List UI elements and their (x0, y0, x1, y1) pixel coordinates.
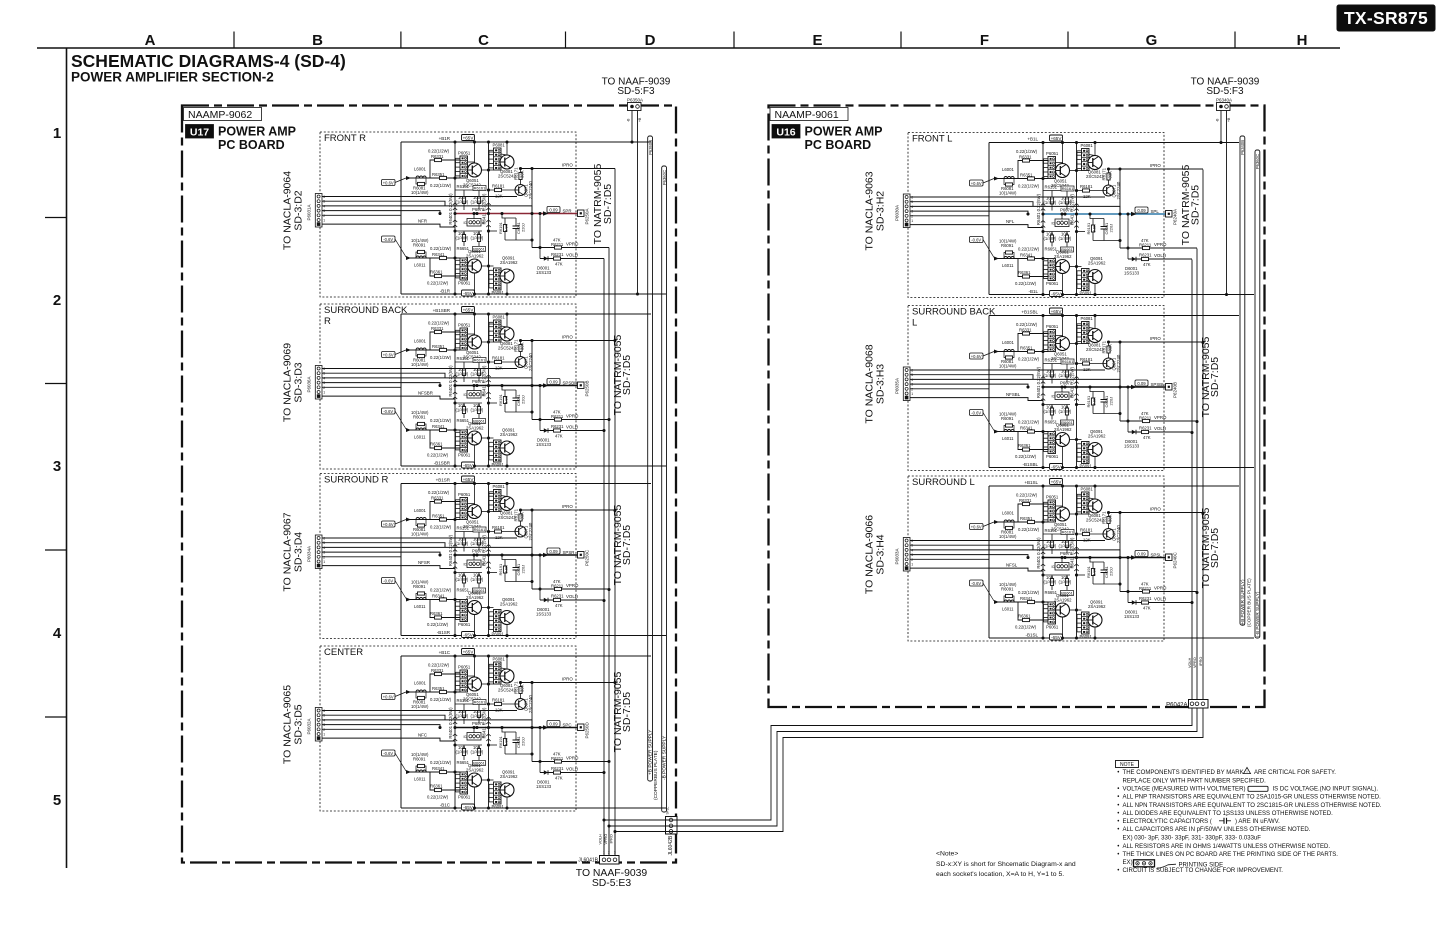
svg-text:POWER AMP: POWER AMP (218, 125, 296, 139)
svg-text:EX) 030- 3pF, 330- 33pF, 331-: EX) 030- 3pF, 330- 33pF, 331- 330pF, 333… (1123, 835, 1262, 841)
svg-text:•: • (1117, 795, 1119, 801)
svg-text:POWER AMPLIFIER SECTION-2: POWER AMPLIFIER SECTION-2 (71, 70, 274, 85)
-B copper bus P6360C right (1255, 150, 1260, 638)
svg-text:NFC: NFC (418, 733, 427, 738)
svg-text:ALL RESISTORS ARE IN OHMS 1/4W: ALL RESISTORS ARE IN OHMS 1/4WATTS UNLES… (1123, 844, 1331, 850)
svg-text:CIRCUIT IS SUBJECT TO CHANGE F: CIRCUIT IS SUBJECT TO CHANGE FOR IMPROVE… (1123, 868, 1284, 874)
svg-text:(+B POWER SUPPLY): (+B POWER SUPPLY) (1240, 579, 1245, 626)
svg-text:-B1SL: -B1SL (1025, 633, 1038, 638)
svg-text:NFL: NFL (1006, 219, 1015, 224)
connector JL6042B (666, 817, 678, 835)
svg-text:•: • (1117, 819, 1119, 825)
svg-text:-B1SBL: -B1SBL (1022, 462, 1038, 467)
right VPRO bus (1196, 249, 1198, 700)
model box TX-SR875 (1337, 5, 1435, 31)
left VOLH bus (603, 259, 605, 857)
svg-text:+B1C: +B1C (439, 650, 451, 655)
svg-text:P6036A: P6036A (307, 376, 312, 392)
svg-text:TO NACLA-9067: TO NACLA-9067 (281, 512, 293, 591)
svg-text:-B1C: -B1C (440, 803, 451, 808)
svg-text:+B1SR: +B1SR (436, 478, 451, 483)
column ticks (233, 32, 235, 49)
row ticks (45, 217, 67, 219)
amplifier channel FRONT L (903, 133, 1254, 298)
svg-text:U17: U17 (190, 126, 209, 138)
svg-text:IPRO: IPRO (609, 834, 613, 843)
svg-text:POWER AMP: POWER AMP (805, 125, 883, 139)
amplifier channel SURROUND R (315, 474, 666, 639)
svg-text:REPLACE ONLY WITH PART NUMBER: REPLACE ONLY WITH PART NUMBER SPECIFIED. (1123, 779, 1267, 785)
wire IPRO left bus (614, 832, 616, 857)
svg-text:SPR: SPR (563, 208, 572, 213)
svg-text:+B1SBL: +B1SBL (1021, 310, 1038, 315)
svg-text:•: • (1117, 803, 1119, 809)
svg-text:•: • (1117, 852, 1119, 858)
svg-text:IS DC VOLTAGE.(NO INPUT SIGNAL: IS DC VOLTAGE.(NO INPUT SIGNAL). (1273, 787, 1379, 793)
svg-text:SPSL: SPSL (1151, 552, 1163, 557)
svg-text:-B1R: -B1R (440, 289, 451, 294)
svg-text:TO NACLA-9064: TO NACLA-9064 (281, 171, 293, 250)
svg-text:+B: +B (638, 117, 642, 122)
svg-text:FRONT R: FRONT R (324, 133, 366, 144)
right VOLH bus (1191, 260, 1193, 700)
svg-text:SD-3:D5: SD-3:D5 (293, 704, 305, 744)
svg-text:SURROUND L: SURROUND L (912, 477, 975, 488)
svg-text:) ARE IN uF/WV.: ) ARE IN uF/WV. (1235, 819, 1280, 825)
svg-text:•: • (1117, 770, 1119, 776)
amplifier channel SURROUND BACK L (903, 306, 1254, 471)
left IPRO bus (614, 169, 616, 857)
svg-text:1: 1 (603, 851, 605, 855)
svg-text:THE COMPONENTS IDENTIFIED BY M: THE COMPONENTS IDENTIFIED BY MARK (1123, 770, 1244, 776)
wire P6350A to -B rail (637, 111, 639, 295)
svg-text:P6035A: P6035A (895, 378, 900, 394)
svg-text:ARE CRITICAL FOR SAFETY.: ARE CRITICAL FOR SAFETY. (1254, 770, 1336, 776)
svg-text:P6042A: P6042A (1166, 703, 1187, 709)
svg-text:P6240C: P6240C (1173, 551, 1178, 568)
svg-text:F: F (980, 32, 989, 49)
svg-text:+B: +B (1227, 117, 1231, 122)
svg-text:SD-7:D5: SD-7:D5 (621, 525, 633, 565)
svg-text:SD-7:D5: SD-7:D5 (1190, 185, 1202, 225)
svg-text:P6340A: P6340A (1216, 98, 1232, 103)
svg-text:-B1SR: -B1SR (437, 630, 451, 635)
-B copper bus P6360C (662, 166, 667, 812)
svg-text:C: C (478, 32, 489, 49)
wire VPRO right to left (609, 708, 1197, 826)
svg-text:TO NACLA-9069: TO NACLA-9069 (281, 343, 293, 422)
svg-text:THE THICK LINES ON PC BOARD AR: THE THICK LINES ON PC BOARD ARE THE PRIN… (1123, 852, 1339, 858)
svg-text:SD-7:D5: SD-7:D5 (602, 184, 614, 224)
svg-text:NOTE: NOTE (1120, 762, 1135, 768)
svg-text:P6250A: P6250A (585, 208, 590, 224)
svg-text:3: 3 (53, 458, 61, 475)
svg-text:SD-7:D5: SD-7:D5 (1209, 357, 1221, 397)
svg-text:SP2L: SP2L (665, 806, 669, 814)
svg-text:VOLH: VOLH (598, 834, 602, 845)
svg-text:VOLH: VOLH (1188, 657, 1192, 668)
svg-text:SD-x:XY is short for Shcematic: SD-x:XY is short for Shcematic Diagram-x… (936, 861, 1076, 868)
svg-text:(COPPER BUS PLATE): (COPPER BUS PLATE) (1247, 578, 1252, 627)
svg-text:P6031A: P6031A (307, 204, 312, 220)
wire P6350A to +B rail (631, 111, 633, 143)
left rule (66, 48, 68, 868)
svg-text:D: D (645, 32, 656, 49)
svg-text:-B1SBR: -B1SBR (434, 461, 451, 466)
wire IPRO right to left (615, 708, 1203, 832)
svg-text:P6350A: P6350A (627, 98, 643, 103)
svg-text:SPSR: SPSR (563, 550, 575, 555)
svg-text:!: ! (1246, 770, 1247, 774)
svg-text:SCHEMATIC DIAGRAMS-4 (SD-4): SCHEMATIC DIAGRAMS-4 (SD-4) (71, 51, 346, 71)
svg-text:NAAMP-9062: NAAMP-9062 (188, 109, 252, 121)
svg-text:•: • (1117, 787, 1119, 793)
svg-text:+B1L: +B1L (1027, 137, 1038, 142)
svg-text:+B1SL: +B1SL (1024, 480, 1038, 485)
svg-text:A: A (145, 32, 156, 49)
left VPRO bus (608, 248, 610, 857)
svg-text:•: • (1117, 868, 1119, 874)
svg-text:SPC: SPC (563, 722, 572, 727)
svg-text:ELECTROLYTIC CAPACITORS (: ELECTROLYTIC CAPACITORS ( (1123, 819, 1212, 825)
svg-text:B: B (312, 32, 323, 49)
svg-text:SD-7:D5: SD-7:D5 (621, 692, 633, 732)
svg-text:(-B POWER SUPPLY): (-B POWER SUPPLY) (1255, 591, 1260, 637)
amplifier channel SURROUND L (903, 476, 1254, 641)
svg-text:NFSL: NFSL (1006, 563, 1018, 568)
svg-text:SURROUND BACK: SURROUND BACK (324, 305, 408, 316)
right IPRO bus (1202, 170, 1204, 700)
svg-text:2: 2 (608, 851, 610, 855)
svg-text:SD-3:H2: SD-3:H2 (875, 191, 887, 231)
svg-text:+B1SBR: +B1SBR (433, 308, 451, 313)
svg-text:SD-3:D3: SD-3:D3 (293, 362, 305, 402)
svg-text:NFSR: NFSR (418, 560, 430, 565)
NAAMP-9061 board outline (769, 106, 1265, 708)
+B copper bus P6350B (648, 136, 653, 781)
svg-text:PC BOARD: PC BOARD (218, 138, 285, 152)
svg-text:G: G (1146, 32, 1158, 49)
ruler top line (37, 47, 1340, 49)
NAAMP-9061 label (770, 108, 848, 121)
svg-text:SPL: SPL (1151, 209, 1160, 214)
NOTE box (1116, 761, 1139, 769)
svg-text:<Note>: <Note> (936, 851, 958, 858)
svg-text:P6240A: P6240A (1173, 209, 1178, 225)
svg-text:TO NACLA-9066: TO NACLA-9066 (864, 515, 876, 594)
svg-text:SD-7:D5: SD-7:D5 (621, 355, 633, 395)
svg-text:+B1R: +B1R (439, 136, 451, 141)
wire VPRO left bus (608, 826, 610, 856)
svg-text:P6250B: P6250B (585, 380, 590, 396)
svg-text:•: • (1117, 827, 1119, 833)
svg-text:JL6041B: JL6041B (578, 858, 598, 864)
svg-text:P6240B: P6240B (1173, 382, 1178, 398)
svg-text:P6250D: P6250D (585, 721, 590, 738)
svg-text:•: • (1117, 811, 1119, 817)
svg-text:(COPPERBUS PLATE): (COPPERBUS PLATE) (653, 750, 659, 800)
svg-text:H: H (1297, 32, 1308, 49)
svg-text:SPSBL: SPSBL (1151, 382, 1166, 387)
svg-text:P6033A: P6033A (895, 548, 900, 564)
svg-text:VOLTAGE (MEASURED WITH VOLTMET: VOLTAGE (MEASURED WITH VOLTMETER) (1123, 787, 1246, 793)
svg-text:SD-3:H4: SD-3:H4 (875, 534, 887, 574)
svg-text:SPSBR: SPSBR (563, 380, 578, 385)
wire VOLH right to left (604, 708, 1192, 820)
amplifier channel FRONT R (315, 132, 666, 297)
svg-text:1: 1 (53, 125, 61, 142)
svg-text:P6250C: P6250C (585, 549, 590, 566)
svg-text:NFR: NFR (418, 219, 427, 224)
svg-text:SD-5:E3: SD-5:E3 (592, 878, 631, 889)
+B copper bus P6340B (1240, 136, 1245, 625)
svg-text:CENTER: CENTER (324, 647, 363, 658)
svg-text:EX): EX) (1123, 860, 1133, 866)
svg-text:ALL CAPACITORS ARE IN pF/50WV: ALL CAPACITORS ARE IN pF/50WV UNLESS OTH… (1123, 827, 1311, 833)
svg-text:4: 4 (53, 625, 62, 642)
U16 designator (772, 125, 800, 139)
U17 designator (186, 125, 214, 139)
svg-text:P6034A: P6034A (307, 546, 312, 562)
svg-text:3: 3 (614, 851, 616, 855)
svg-text:SURROUND BACK: SURROUND BACK (912, 307, 996, 318)
svg-text:SD-5:F3: SD-5:F3 (617, 86, 655, 97)
svg-text:NAAMP-9061: NAAMP-9061 (775, 109, 839, 121)
svg-text:R: R (324, 316, 331, 327)
amplifier channel CENTER (315, 646, 666, 811)
NAAMP-9062 board outline (182, 106, 676, 863)
svg-text:SD-3:D2: SD-3:D2 (293, 190, 305, 230)
svg-text:SURROUND R: SURROUND R (324, 475, 389, 486)
svg-text:P6360C: P6360C (1255, 154, 1260, 169)
svg-text:PRINTING SIDE: PRINTING SIDE (1179, 862, 1224, 868)
amplifier channel SURROUND BACK R (315, 304, 666, 469)
svg-text:-B POWER SUPPLY: -B POWER SUPPLY (662, 735, 668, 780)
svg-text:VPRO: VPRO (604, 834, 608, 845)
svg-text:VPRO: VPRO (1193, 657, 1197, 668)
svg-text:ALL NPN TRANSISTORS ARE EQUIVA: ALL NPN TRANSISTORS ARE EQUIVALENT TO 2S… (1123, 803, 1382, 809)
svg-text:+B POWER SUPPLY: +B POWER SUPPLY (648, 729, 654, 775)
svg-text:SD-3:D4: SD-3:D4 (293, 532, 305, 572)
svg-text:NFSBL: NFSBL (1006, 392, 1021, 397)
svg-text:SD-5:F3: SD-5:F3 (1206, 86, 1244, 97)
svg-text:ALL PNP TRANSISTORS ARE EQUIVA: ALL PNP TRANSISTORS ARE EQUIVALENT TO 2S… (1123, 795, 1382, 801)
svg-text:P6032A: P6032A (307, 718, 312, 734)
svg-text:TX-SR875: TX-SR875 (1344, 8, 1428, 28)
wire VOLH left bus to JL6041B (603, 820, 605, 856)
svg-text:NFSBR: NFSBR (418, 391, 433, 396)
svg-text:SD-3:H3: SD-3:H3 (875, 364, 887, 404)
svg-text:IPRO: IPRO (1199, 657, 1203, 666)
printing-side sample box (1134, 860, 1155, 867)
svg-text:JL6042B: JL6042B (668, 835, 674, 855)
svg-text:SD-7:D5: SD-7:D5 (1209, 528, 1221, 568)
svg-text:TO NACLA-9063: TO NACLA-9063 (864, 171, 876, 250)
svg-text:each socket's location, X=A to: each socket's location, X=A to H, Y=1 to… (936, 871, 1064, 878)
svg-text:-B1L: -B1L (1028, 289, 1038, 294)
svg-text:•: • (1117, 844, 1119, 850)
svg-text:P6360C: P6360C (662, 170, 667, 185)
svg-text:P6030A: P6030A (895, 205, 900, 221)
NAAMP-9062 label (184, 108, 262, 121)
svg-text:TO NACLA-9065: TO NACLA-9065 (281, 685, 293, 764)
svg-text:5: 5 (53, 792, 61, 809)
svg-text:L: L (912, 318, 917, 329)
svg-text:PC BOARD: PC BOARD (805, 138, 872, 152)
svg-text:TO NACLA-9068: TO NACLA-9068 (864, 344, 876, 423)
svg-text:E: E (812, 32, 822, 49)
svg-text:U16: U16 (776, 126, 795, 138)
svg-text:FRONT L: FRONT L (912, 134, 952, 145)
svg-text:P6340B: P6340B (1240, 140, 1245, 155)
svg-text:2: 2 (53, 292, 61, 309)
